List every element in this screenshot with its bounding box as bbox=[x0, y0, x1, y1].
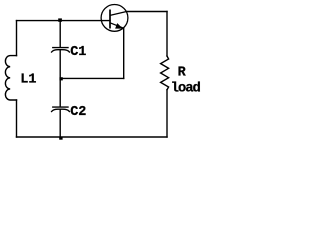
svg-text:L1: L1 bbox=[20, 73, 36, 88]
wire emitter horizontal to node bbox=[60, 77, 123, 79]
svg-text:C2: C2 bbox=[70, 105, 86, 120]
wire right rail upper bbox=[166, 12, 168, 57]
capacitor C1 bbox=[53, 47, 68, 49]
node dot top bbox=[58, 18, 62, 21]
inductor L1 bbox=[5, 56, 16, 100]
wire C1 to node bbox=[59, 50, 61, 78]
resistor R load bbox=[161, 56, 169, 90]
svg-text:C1: C1 bbox=[70, 45, 86, 60]
wire C-column top lead bbox=[59, 21, 61, 47]
wire top-left (base rail) bbox=[17, 20, 111, 22]
capacitor C2 bbox=[53, 106, 68, 108]
node dot bottom bbox=[59, 137, 62, 140]
wire right rail lower bbox=[166, 90, 168, 137]
wire emitter vertical bbox=[123, 28, 125, 78]
wire bottom rail bbox=[17, 136, 168, 138]
transistor emitter arrow bbox=[116, 24, 122, 28]
node dot middle bbox=[59, 77, 62, 80]
transistor Q1 bbox=[101, 5, 128, 32]
wire collector to right rail bbox=[127, 11, 167, 13]
wire left rail lower bbox=[16, 100, 18, 137]
svg-text:R: R bbox=[178, 66, 187, 81]
wire C2 to bottom rail bbox=[59, 110, 61, 138]
wire left rail upper bbox=[16, 21, 18, 56]
wire node to C2 bbox=[59, 78, 61, 106]
svg-text:load: load bbox=[171, 81, 201, 97]
